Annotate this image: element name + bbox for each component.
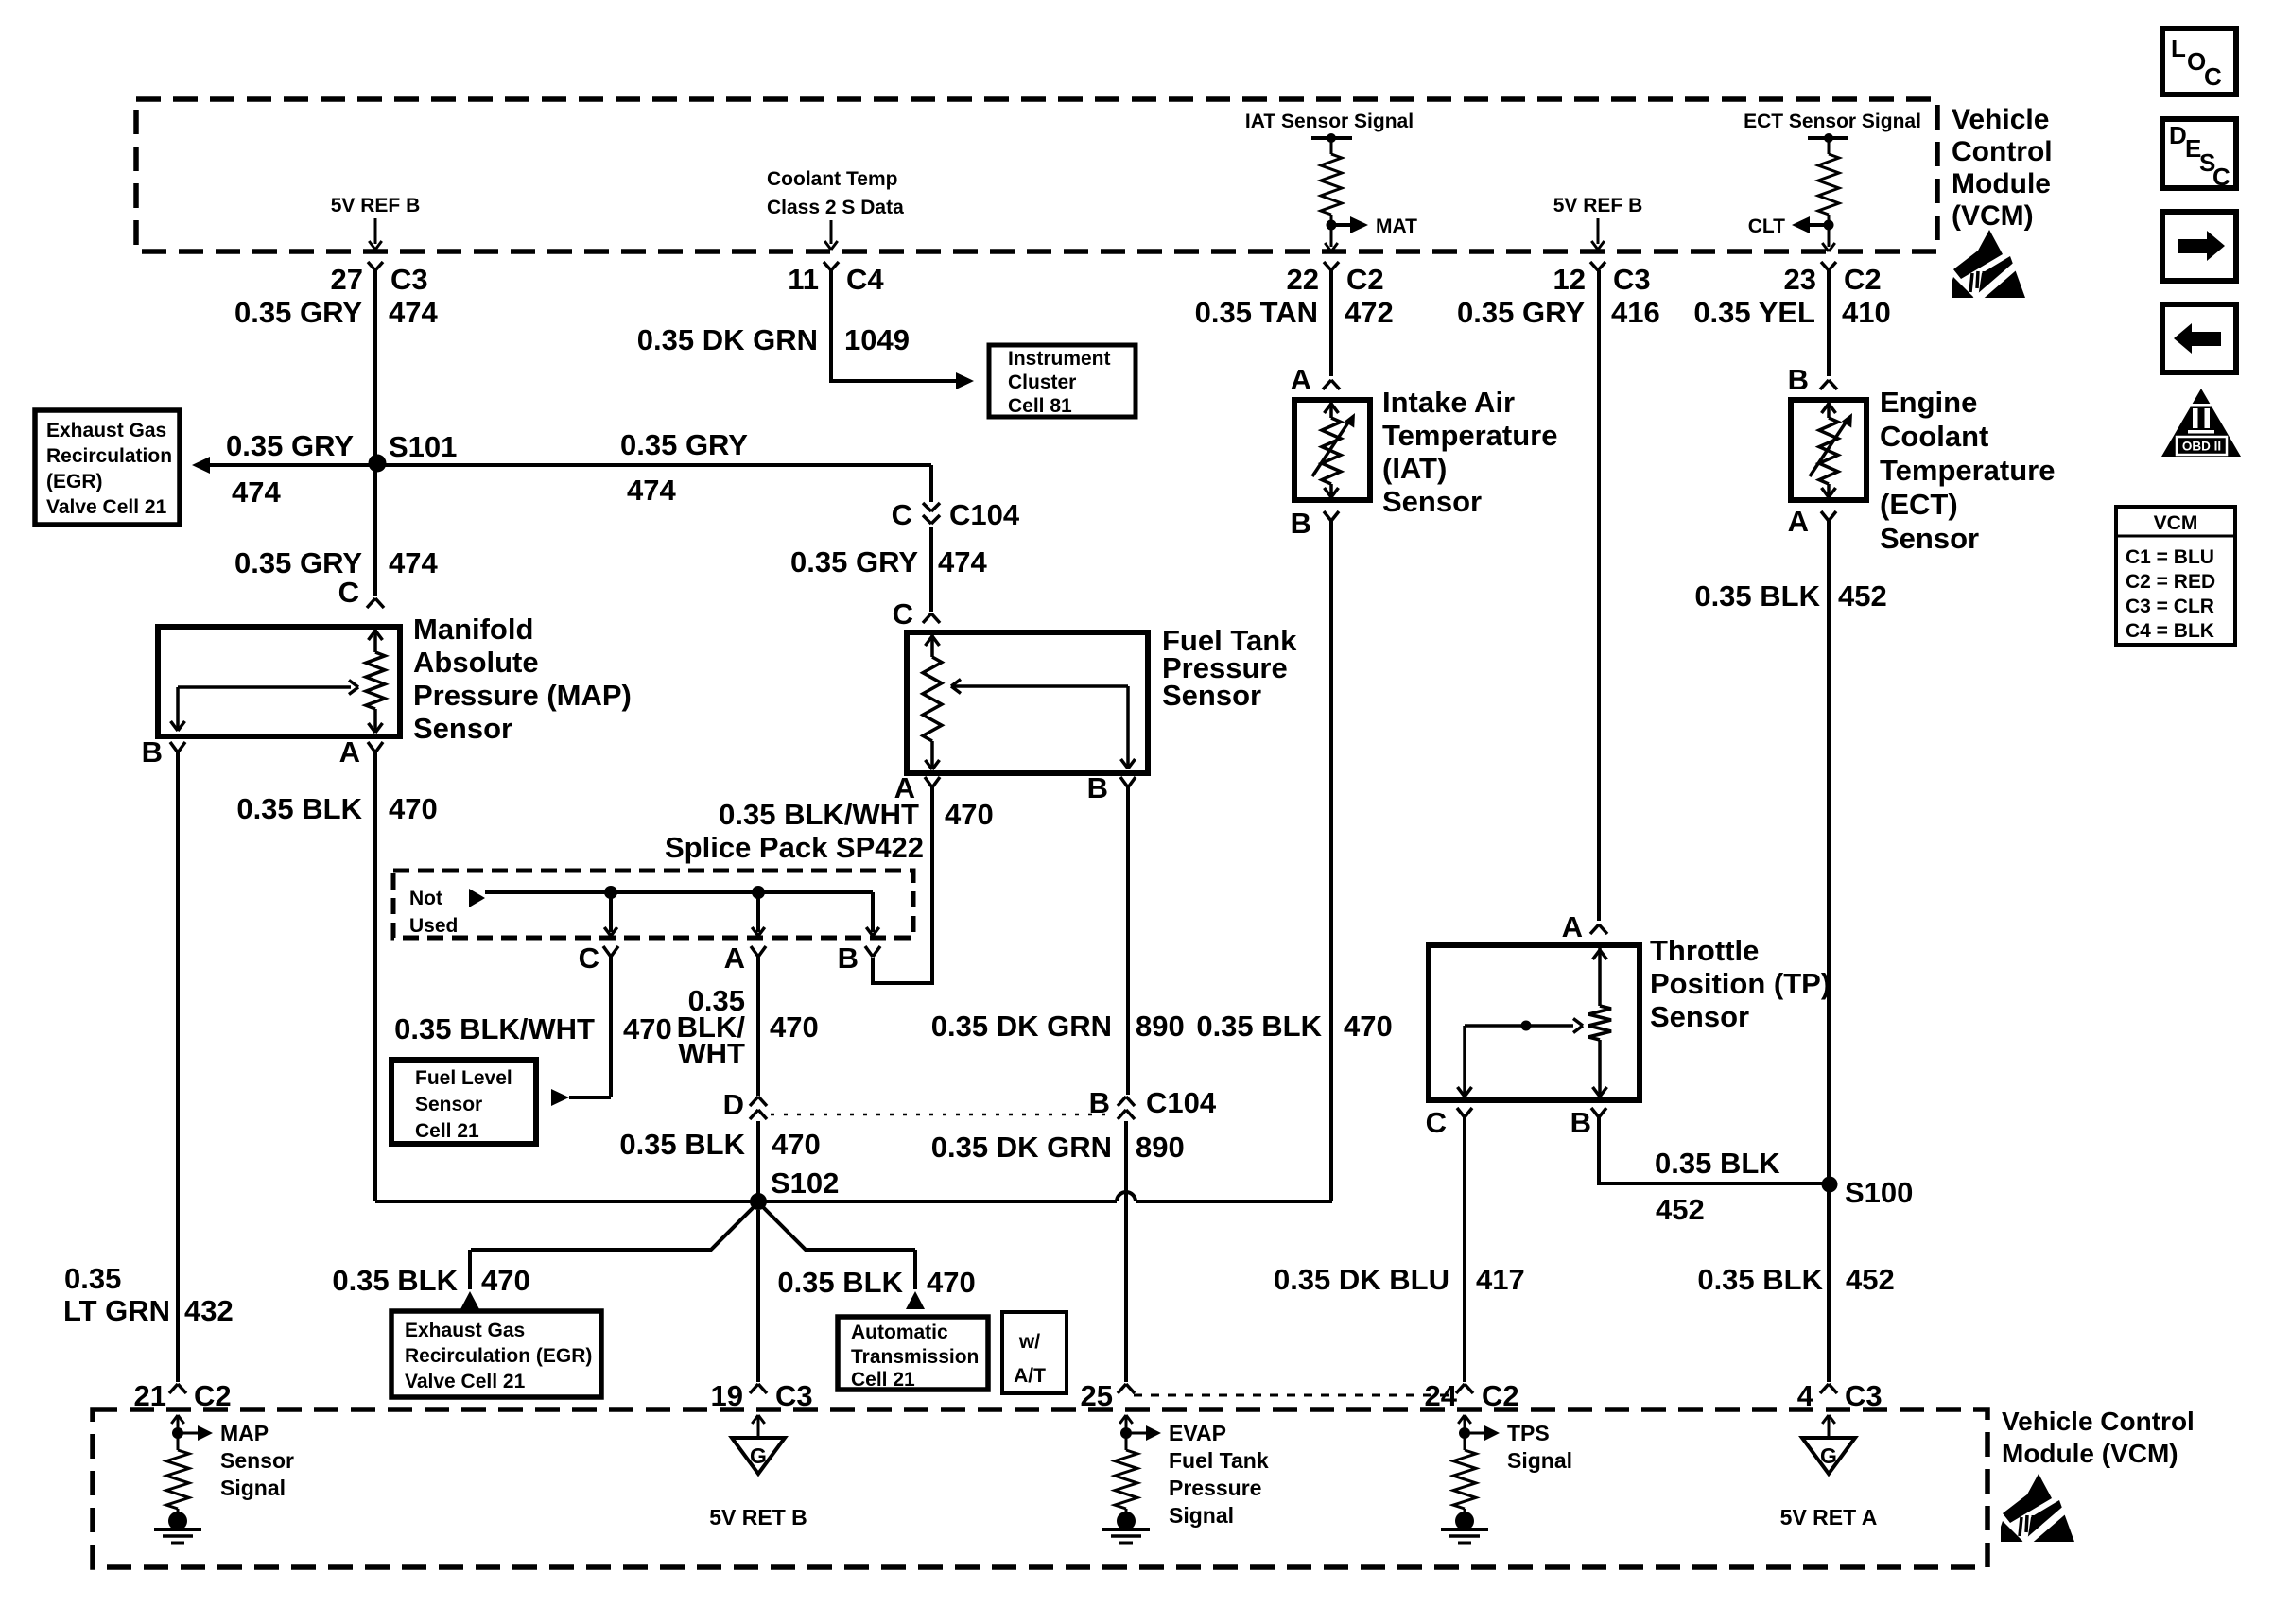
svg-text:0.35 GRY: 0.35 GRY [790,545,918,579]
svg-text:470: 470 [1344,1010,1393,1043]
svg-text:Position (TP): Position (TP) [1650,967,1831,1000]
svg-text:Exhaust Gas: Exhaust Gas [46,420,166,441]
svg-text:890: 890 [1136,1131,1185,1164]
svg-text:G: G [1820,1443,1837,1468]
svg-text:Automatic: Automatic [851,1322,948,1343]
svg-text:C3: C3 [1613,263,1651,296]
svg-text:Instrument: Instrument [1008,348,1111,370]
svg-text:470: 470 [389,792,438,825]
svg-text:Sensor: Sensor [415,1094,482,1115]
svg-text:0.35 DK GRN: 0.35 DK GRN [931,1131,1112,1164]
svg-text:0.35 GRY: 0.35 GRY [234,296,362,329]
svg-text:S100: S100 [1845,1176,1913,1209]
svg-text:C2: C2 [1482,1379,1519,1412]
svg-text:B: B [1788,363,1809,396]
svg-text:CLT: CLT [1748,216,1785,237]
svg-text:MAT: MAT [1376,216,1417,237]
svg-text:IAT Sensor Signal: IAT Sensor Signal [1245,111,1414,132]
svg-text:Engine: Engine [1880,386,1977,419]
svg-text:B: B [1291,507,1311,540]
svg-text:B: B [1087,771,1108,804]
svg-text:L: L [2171,34,2186,62]
svg-text:Valve Cell 21: Valve Cell 21 [405,1371,526,1392]
svg-text:Exhaust Gas: Exhaust Gas [405,1320,525,1341]
svg-text:C3: C3 [1845,1379,1883,1412]
svg-text:410: 410 [1842,296,1891,329]
svg-text:890: 890 [1136,1010,1185,1043]
svg-text:C2: C2 [1844,263,1882,296]
svg-text:470: 470 [772,1128,821,1161]
svg-text:S102: S102 [771,1166,839,1200]
svg-text:C4 = BLK: C4 = BLK [2126,620,2214,642]
svg-text:474: 474 [389,546,438,579]
svg-text:LT GRN: LT GRN [63,1294,170,1327]
svg-text:5V RET A: 5V RET A [1780,1505,1878,1529]
svg-text:0.35 BLK: 0.35 BLK [1655,1147,1780,1180]
svg-text:4: 4 [1797,1379,1814,1412]
svg-text:5V REF B: 5V REF B [1553,195,1643,216]
svg-text:0.35 GRY: 0.35 GRY [620,428,748,461]
svg-text:Throttle: Throttle [1650,934,1759,967]
svg-text:432: 432 [184,1294,234,1327]
svg-text:Pressure (MAP): Pressure (MAP) [413,679,632,712]
svg-text:A: A [1291,363,1311,396]
svg-text:452: 452 [1656,1193,1705,1226]
svg-text:12: 12 [1553,263,1586,296]
svg-text:5V REF B: 5V REF B [331,195,421,216]
svg-text:C: C [338,576,359,609]
svg-text:0.35 BLK: 0.35 BLK [777,1266,903,1299]
svg-text:452: 452 [1846,1263,1895,1296]
svg-text:5V RET B: 5V RET B [709,1505,807,1529]
svg-text:Sensor: Sensor [1650,1000,1749,1033]
svg-text:0.35 BLK/WHT: 0.35 BLK/WHT [719,798,919,831]
svg-text:C104: C104 [949,498,1020,531]
svg-text:Module: Module [1952,168,2051,199]
svg-text:(ECT): (ECT) [1880,488,1958,521]
svg-text:Intake Air: Intake Air [1382,386,1515,419]
svg-text:Pressure: Pressure [1169,1476,1261,1500]
svg-text:Used: Used [409,915,458,937]
svg-text:Fuel Tank: Fuel Tank [1169,1448,1269,1473]
svg-text:C3 = CLR: C3 = CLR [2126,596,2214,617]
svg-text:0.35 DK GRN: 0.35 DK GRN [637,323,818,356]
svg-text:B: B [1570,1106,1591,1139]
svg-text:(IAT): (IAT) [1382,452,1447,485]
svg-text:TPS: TPS [1507,1421,1550,1445]
svg-text:OBD II: OBD II [2182,440,2221,454]
svg-text:Recirculation (EGR): Recirculation (EGR) [405,1345,592,1367]
svg-text:S101: S101 [389,430,457,463]
svg-text:0.35 DK BLU: 0.35 DK BLU [1274,1263,1449,1296]
svg-text:416: 416 [1611,296,1660,329]
svg-text:0.35 BLK: 0.35 BLK [1196,1010,1322,1043]
svg-text:0.35 BLK: 0.35 BLK [1697,1263,1823,1296]
svg-text:474: 474 [938,545,987,579]
svg-text:19: 19 [711,1379,743,1412]
svg-text:Transmission: Transmission [851,1346,979,1368]
svg-text:0.35 GRY: 0.35 GRY [234,546,362,579]
svg-text:Coolant: Coolant [1880,420,1988,453]
svg-text:D: D [723,1088,744,1121]
svg-text:C3: C3 [390,263,428,296]
svg-text:EVAP: EVAP [1169,1421,1226,1445]
svg-text:C2: C2 [194,1379,232,1412]
svg-text:C2: C2 [1346,263,1384,296]
svg-text:Temperature: Temperature [1382,419,1558,452]
svg-text:Coolant Temp: Coolant Temp [767,168,897,190]
svg-text:0.35 BLK: 0.35 BLK [236,792,362,825]
svg-text:Module (VCM): Module (VCM) [2002,1439,2178,1468]
svg-text:C2 = RED: C2 = RED [2126,571,2215,593]
svg-text:Sensor: Sensor [220,1448,294,1473]
svg-text:Cell 21: Cell 21 [415,1120,479,1142]
svg-text:C: C [2204,62,2222,91]
svg-text:C: C [1426,1106,1447,1139]
svg-text:Splice Pack SP422: Splice Pack SP422 [665,831,924,864]
svg-text:A/T: A/T [1014,1365,1046,1387]
svg-text:1049: 1049 [844,323,910,356]
svg-text:Control: Control [1952,136,2053,167]
svg-text:G: G [750,1443,767,1468]
svg-text:B: B [838,942,859,975]
svg-text:A: A [1562,910,1583,943]
svg-text:ECT Sensor Signal: ECT Sensor Signal [1744,111,1921,132]
svg-text:0.35 BLK: 0.35 BLK [619,1128,745,1161]
svg-text:w/: w/ [1018,1331,1040,1353]
svg-text:C104: C104 [1146,1086,1217,1119]
svg-text:Absolute: Absolute [413,646,539,679]
svg-text:Temperature: Temperature [1880,454,2056,487]
svg-text:22: 22 [1287,263,1319,296]
svg-text:(EGR): (EGR) [46,471,103,492]
svg-text:0.35 YEL: 0.35 YEL [1693,296,1815,329]
svg-text:470: 470 [927,1266,976,1299]
svg-text:A: A [1788,505,1809,538]
svg-text:Signal: Signal [1507,1448,1572,1473]
svg-text:C4: C4 [846,263,884,296]
svg-text:Not: Not [409,888,442,909]
svg-text:21: 21 [134,1379,166,1412]
svg-text:Sensor: Sensor [1162,679,1261,712]
svg-text:Sensor: Sensor [1382,485,1482,518]
svg-text:470: 470 [945,798,994,831]
svg-text:Manifold: Manifold [413,613,533,646]
svg-text:27: 27 [331,263,363,296]
svg-text:417: 417 [1476,1263,1525,1296]
svg-text:C: C [892,498,912,531]
svg-text:Recirculation: Recirculation [46,445,172,467]
svg-text:C: C [2212,163,2230,191]
svg-text:Sensor: Sensor [1880,522,1979,555]
svg-text:WHT: WHT [678,1037,745,1070]
svg-text:Cell 81: Cell 81 [1008,395,1072,417]
svg-text:D: D [2169,121,2187,149]
svg-text:0.35 GRY: 0.35 GRY [1457,296,1585,329]
svg-text:0.35 BLK: 0.35 BLK [1694,579,1820,613]
svg-text:Class 2 S Data: Class 2 S Data [767,197,904,218]
svg-text:0.35 DK GRN: 0.35 DK GRN [931,1010,1112,1043]
svg-text:0.35: 0.35 [64,1262,121,1295]
svg-text:11: 11 [788,263,819,296]
svg-text:474: 474 [389,296,438,329]
svg-text:472: 472 [1345,296,1394,329]
svg-text:Signal: Signal [220,1476,286,1500]
svg-text:C1 = BLU: C1 = BLU [2126,546,2214,568]
svg-text:0.35 TAN: 0.35 TAN [1195,296,1318,329]
svg-text:MAP: MAP [220,1421,269,1445]
svg-text:C3: C3 [775,1379,813,1412]
svg-text:452: 452 [1838,579,1887,613]
svg-text:470: 470 [770,1011,819,1044]
svg-text:0.35 BLK/WHT: 0.35 BLK/WHT [394,1012,595,1045]
svg-text:0.35 GRY: 0.35 GRY [226,429,354,462]
svg-text:Signal: Signal [1169,1503,1234,1528]
svg-text:C: C [893,597,913,631]
svg-text:Fuel Level: Fuel Level [415,1067,512,1089]
svg-text:Sensor: Sensor [413,712,512,745]
svg-text:25: 25 [1081,1379,1113,1412]
svg-text:0.35 BLK: 0.35 BLK [332,1264,458,1297]
svg-text:B: B [142,735,163,769]
svg-text:Valve Cell 21: Valve Cell 21 [46,496,167,518]
svg-text:A: A [339,735,360,769]
svg-text:Vehicle: Vehicle [1952,104,2049,135]
svg-text:(VCM): (VCM) [1952,200,2034,232]
svg-text:474: 474 [627,474,676,507]
svg-text:B: B [1089,1086,1110,1119]
svg-text:Cluster: Cluster [1008,371,1076,393]
svg-text:474: 474 [232,475,281,509]
svg-text:VCM: VCM [2154,512,2198,534]
svg-text:C: C [579,942,599,975]
svg-text:A: A [724,942,745,975]
svg-text:470: 470 [623,1012,672,1045]
svg-text:Cell 21: Cell 21 [851,1369,915,1391]
svg-text:23: 23 [1784,263,1816,296]
svg-text:470: 470 [481,1264,530,1297]
svg-text:Vehicle Control: Vehicle Control [2002,1407,2195,1436]
